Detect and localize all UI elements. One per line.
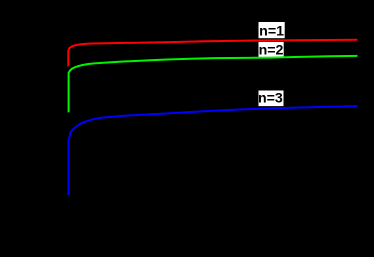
svg-text:n=3: n=3 <box>258 90 283 106</box>
svg-text:n=2: n=2 <box>259 43 284 59</box>
svg-text:n=1: n=1 <box>259 23 284 39</box>
